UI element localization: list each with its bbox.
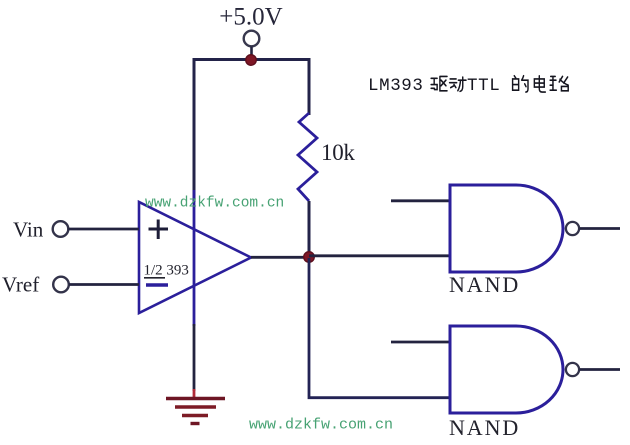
wire NAND1 output [580, 227, 621, 230]
wire top rail [194, 58, 309, 61]
wire op-amp ground pin [193, 324, 196, 391]
op-amp U1 triangle [139, 202, 251, 313]
svg-text:+5.0V: +5.0V [219, 4, 282, 31]
title glyph 驱 [431, 76, 447, 90]
wire NAND2 upper input stub [391, 341, 450, 344]
ground [166, 389, 225, 424]
svg-text:LM393: LM393 [368, 76, 424, 96]
wire node down to NAND2 [309, 258, 450, 398]
title glyph 电 [534, 76, 545, 92]
NAND gate G2 [450, 326, 563, 413]
title glyph 动 [450, 77, 467, 91]
svg-text:NAND: NAND [449, 272, 520, 297]
svg-text:Vin: Vin [13, 218, 44, 242]
NAND G2 output bubble [566, 363, 579, 376]
resistor R1 10k [298, 113, 317, 201]
svg-text:NAND: NAND [449, 415, 520, 440]
NAND G1 output bubble [566, 222, 579, 235]
terminal Vref [53, 277, 69, 293]
op-amp minus input mark [146, 283, 168, 287]
svg-text:1/2 393: 1/2 393 [144, 263, 189, 279]
wire Vref to op-amp [69, 283, 139, 286]
svg-text:TTL: TTL [467, 76, 500, 96]
title glyph 的 [513, 76, 528, 92]
wire resistor to junction [308, 201, 311, 256]
junction dot at +5V rail [246, 55, 257, 66]
svg-text:Vref: Vref [2, 273, 39, 297]
title glyph 路 [550, 76, 568, 90]
wire node to NAND1 lower input [309, 254, 450, 257]
svg-text:www.dzkfw.com.cn: www.dzkfw.com.cn [145, 196, 284, 212]
wire +5V terminal to rail [250, 47, 253, 57]
wire NAND2 output [580, 368, 621, 371]
op-amp plus input mark [149, 220, 169, 240]
wire op-amp output to node [251, 256, 309, 259]
terminal Vin [53, 221, 69, 237]
svg-text:www.dzkfw.com.cn: www.dzkfw.com.cn [249, 417, 393, 434]
NAND gate G1 [450, 185, 563, 272]
terminal +5V [244, 31, 260, 47]
wire right drop to resistor [308, 58, 311, 115]
wire NAND1 upper input stub [391, 199, 450, 202]
op-amp U1 power pin [193, 190, 196, 326]
wire Vin to op-amp [69, 228, 140, 231]
svg-text:10k: 10k [321, 140, 355, 165]
junction dot output node [304, 252, 315, 263]
wire left supply drop [193, 58, 196, 202]
